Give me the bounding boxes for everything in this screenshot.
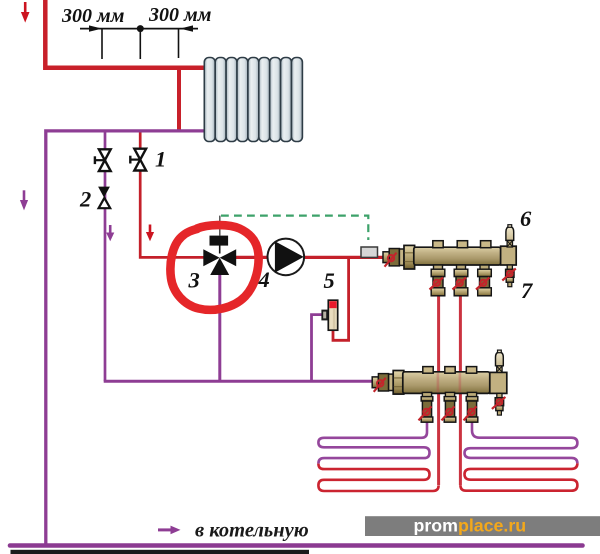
- svg-text:4: 4: [258, 267, 270, 292]
- svg-text:promplace.ru: promplace.ru: [414, 516, 527, 536]
- svg-text:7: 7: [521, 278, 533, 303]
- svg-text:6: 6: [520, 206, 532, 231]
- svg-text:2: 2: [79, 187, 91, 212]
- svg-text:в котельную: в котельную: [195, 520, 309, 542]
- svg-text:300 мм: 300 мм: [148, 4, 212, 26]
- svg-text:5: 5: [324, 268, 335, 293]
- svg-text:300 мм: 300 мм: [61, 5, 125, 27]
- svg-text:1: 1: [155, 147, 166, 172]
- svg-text:3: 3: [188, 268, 200, 293]
